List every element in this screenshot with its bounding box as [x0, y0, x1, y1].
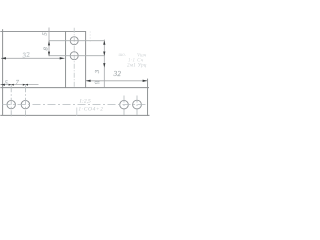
center line hole row 1	[49, 40, 104, 42]
arrow 32-left right end	[60, 57, 65, 59]
arrow x49 up	[48, 41, 50, 46]
arrow 5/7 left end	[1, 84, 5, 86]
svg-text:32: 32	[21, 50, 31, 59]
center line hole row 2	[49, 55, 104, 57]
base bottom edge	[0, 114, 149, 116]
dim line vertical x=49 (5 and 8)	[48, 28, 50, 57]
arrow bowtie at hole B	[23, 84, 28, 86]
svg-text:32: 32	[113, 70, 122, 78]
center line hole D vertical	[136, 96, 138, 117]
base right edge + extension up	[147, 79, 149, 116]
top edge of part	[0, 31, 86, 33]
svg-text:1·CO4+2: 1·CO4+2	[78, 105, 103, 112]
faint squiggle under 3	[95, 81, 100, 83]
arrow x49 down	[48, 52, 50, 57]
center line vertical column holes	[73, 28, 75, 88]
hole 1 column	[70, 37, 78, 45]
hole D base	[133, 100, 142, 109]
center line hole C vertical	[123, 96, 125, 117]
svg-text:шо.: шо.	[119, 53, 127, 58]
arrow 32-left left end	[1, 57, 6, 59]
hole C base	[120, 100, 129, 109]
arrow x104 down mid	[103, 52, 105, 57]
column right edge	[85, 31, 87, 88]
hole B base	[21, 100, 29, 108]
left edge of part	[2, 29, 4, 115]
svg-text:3: 3	[94, 69, 101, 74]
center line hole B vertical	[24, 85, 26, 116]
arrow x104 up	[103, 40, 105, 45]
dim line vertical x=104.3	[103, 40, 105, 88]
center line hole A vertical	[10, 85, 12, 116]
dim line 5/7 bottom left	[0, 84, 38, 86]
arrow bowtie at hole A	[9, 84, 14, 86]
base top edge	[0, 87, 149, 89]
svg-text:1:2,5: 1:2,5	[79, 99, 91, 105]
hole 2 column	[70, 52, 78, 60]
svg-text:2м1 Урц: 2м1 Урц	[127, 64, 147, 69]
arrow x104 down low	[103, 63, 105, 68]
faint pencil tick near column base	[76, 108, 78, 116]
arrow 32-right right end	[143, 80, 148, 82]
dim line 32 right	[86, 80, 148, 82]
column left edge	[65, 31, 67, 88]
center line base holes horizontal	[3, 104, 148, 106]
faint hidden line x=90	[89, 32, 91, 44]
hole A base	[7, 100, 15, 108]
dim line 32 left	[1, 57, 65, 59]
arrow 32-right left end	[86, 80, 91, 82]
svg-text:5: 5	[5, 80, 8, 86]
